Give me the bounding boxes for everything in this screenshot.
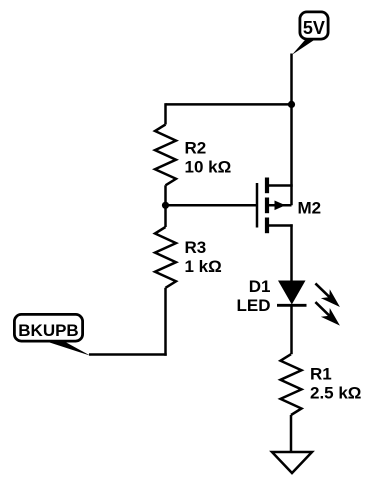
wire: top horizontal	[166, 103, 292, 106]
channel bars	[265, 178, 269, 194]
svg-text:2.5 kΩ: 2.5 kΩ	[310, 383, 361, 402]
svg-text:R2: R2	[185, 139, 207, 158]
svg-text:D1: D1	[249, 277, 271, 296]
5V pointer	[292, 39, 315, 55]
node junction dot (gate node)	[162, 202, 169, 209]
source lead	[267, 224, 293, 227]
net label BKUPB	[14, 314, 82, 341]
wire: 5V to drain (right vertical rail)	[290, 54, 293, 206]
resistor R2	[155, 125, 176, 186]
node junction dot (top)	[288, 101, 295, 108]
bulk lead with arrow	[267, 204, 292, 207]
wire: bottom horizontal to BKUPB	[89, 353, 167, 356]
gate bar	[256, 183, 259, 228]
diode D1 LED	[278, 281, 306, 305]
cathode bar	[277, 304, 307, 307]
svg-text:LED: LED	[237, 296, 271, 315]
svg-text:M2: M2	[298, 198, 322, 217]
wire: R1 to ground	[290, 415, 293, 452]
wire: gate horizontal	[166, 204, 257, 207]
svg-text:R1: R1	[310, 364, 332, 383]
svg-text:1 kΩ: 1 kΩ	[185, 257, 222, 276]
LED light arrow 2	[311, 298, 344, 330]
resistor R3	[155, 227, 176, 288]
ground symbol	[272, 452, 312, 473]
transistor M2	[257, 178, 293, 234]
wire: source to LED	[290, 224, 293, 281]
resistor R1	[281, 354, 302, 415]
power flag 5V box	[300, 12, 328, 39]
wire: R3 to bottom corner	[164, 288, 167, 356]
drain lead	[267, 184, 293, 187]
svg-text:R3: R3	[185, 238, 207, 257]
svg-text:10 kΩ: 10 kΩ	[185, 158, 232, 177]
BKUPB pointer	[45, 341, 91, 356]
svg-text:5V: 5V	[303, 18, 325, 38]
wire: LED to R1	[290, 305, 293, 354]
svg-text:BKUPB: BKUPB	[18, 321, 78, 340]
wire: R2 to R3	[164, 185, 167, 227]
wire: left rail top to R2	[164, 103, 167, 124]
LED light arrow 1	[311, 279, 344, 311]
